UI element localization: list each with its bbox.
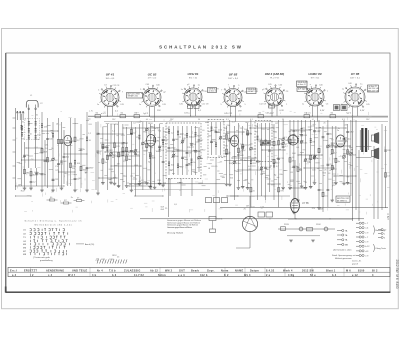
revision table column rule — [244, 267, 246, 276]
capacitor — [134, 153, 137, 154]
antenna input terminal — [22, 111, 24, 120]
resistor — [273, 159, 275, 163]
svg-text:2n: 2n — [316, 158, 318, 160]
wire — [110, 124, 112, 182]
wire stub — [319, 169, 322, 171]
wire — [233, 126, 235, 200]
capacitor — [168, 148, 171, 149]
svg-text:C12 C8: C12 C8 — [202, 104, 210, 106]
wire — [130, 122, 132, 191]
switch contact on bus — [120, 115, 126, 118]
tube V2 heater lead — [149, 106, 151, 116]
terminal symbol — [356, 236, 364, 238]
wire — [301, 120, 303, 186]
coil — [28, 128, 30, 133]
wire stub — [330, 154, 332, 156]
svg-text:185V: 185V — [148, 123, 153, 125]
svg-text:1M: 1M — [246, 205, 249, 207]
switch block — [206, 198, 212, 203]
svg-text:Gepr.: Gepr. — [207, 269, 215, 272]
resistor — [122, 151, 124, 155]
terminal symbol — [337, 243, 344, 245]
svg-text:Schalter Stellung u. Spulensat: Schalter Stellung u. Spulensatz im — [25, 220, 82, 223]
output transformer TR1 secondary winding — [365, 128, 367, 152]
trimmer capacitor — [142, 142, 145, 145]
tube V6 heater lead — [312, 106, 314, 116]
svg-text:5k: 5k — [201, 158, 203, 160]
wire — [298, 154, 322, 156]
coil — [177, 131, 179, 136]
svg-text:Sk: Sk — [121, 112, 123, 114]
tube V4 heater lead — [230, 107, 232, 117]
wire — [114, 124, 116, 183]
wire stub — [148, 132, 150, 134]
trimmer capacitor — [313, 156, 316, 159]
wire stub — [238, 163, 240, 165]
svg-text:ZULAESSIG: ZULAESSIG — [124, 269, 141, 272]
coil — [107, 147, 109, 152]
wire — [291, 129, 310, 131]
terminal symbol — [378, 233, 383, 235]
switch block — [222, 198, 228, 203]
coil — [250, 160, 252, 165]
svg-text:Bl 2: Bl 2 — [372, 269, 378, 272]
svg-text:} Tastensatz gedr.: } Tastensatz gedr. — [33, 256, 51, 259]
terminal symbol — [356, 222, 364, 224]
rail wire — [352, 117, 354, 221]
terminal symbol — [378, 237, 383, 239]
resistor — [102, 159, 104, 163]
svg-text:2012 SW M 6 8100: 2012 SW M 6 8100 — [395, 260, 399, 289]
wire — [356, 157, 372, 159]
ground — [130, 190, 134, 192]
revision table rule — [8, 271, 390, 273]
trimmer capacitor — [300, 141, 303, 144]
capacitor — [225, 153, 228, 154]
capacitor — [102, 147, 105, 148]
resistor — [242, 145, 244, 149]
wire — [322, 126, 324, 212]
antenna lead wire — [35, 105, 37, 169]
callout box — [297, 88, 307, 92]
svg-text:k: k — [98, 89, 99, 91]
ground — [145, 183, 149, 185]
terminal symbol — [356, 227, 364, 229]
svg-text:2n: 2n — [140, 121, 142, 123]
svg-text:f g2 2: f g2 2 — [346, 113, 352, 115]
trimmer capacitor — [181, 140, 184, 143]
capacitor — [63, 156, 66, 157]
svg-text:grundstellung: grundstellung — [40, 259, 53, 262]
trimmer capacitor — [134, 150, 137, 153]
heater bus wire — [88, 115, 388, 117]
tube V5 heater lead — [276, 106, 278, 116]
revision table column rule — [284, 267, 286, 276]
trimmer capacitor — [110, 153, 113, 156]
trimmer capacitor — [172, 154, 175, 157]
resistor — [76, 200, 81, 202]
junction — [352, 218, 353, 219]
wire — [249, 232, 251, 248]
capacitor — [237, 155, 240, 156]
svg-text:Multizet gemessen: Multizet gemessen — [335, 257, 352, 260]
wire — [16, 185, 65, 187]
switch table row — [23, 253, 66, 256]
wire — [17, 119, 353, 186]
svg-text:19V: 19V — [157, 110, 161, 112]
svg-text:C12 C8: C12 C8 — [112, 85, 120, 87]
wire stub — [333, 173, 336, 175]
ground — [241, 186, 245, 188]
capacitor — [41, 174, 44, 175]
coupling coil — [266, 141, 271, 146]
svg-text:8/1 × 10: 8/1 × 10 — [189, 76, 198, 79]
switch contact on bus — [258, 115, 264, 118]
wire stub — [104, 175, 107, 177]
capacitor — [181, 157, 184, 158]
antenna coil shield box — [25, 119, 40, 140]
wire stub — [158, 129, 160, 131]
wire — [212, 221, 214, 230]
capacitor — [335, 147, 338, 148]
capacitor — [331, 143, 334, 144]
wire — [334, 175, 356, 177]
svg-text:b 4: b 4 — [332, 274, 337, 277]
capacitor — [246, 133, 249, 134]
trimmer capacitor — [343, 156, 346, 159]
ground — [51, 190, 55, 192]
capacitor — [80, 149, 83, 150]
tube V1 heater lead — [107, 107, 109, 117]
wire stub — [251, 179, 253, 181]
svg-text:11.7.52: 11.7.52 — [134, 274, 144, 277]
rail wire — [358, 150, 360, 221]
ground — [73, 190, 77, 192]
wire stub — [143, 167, 147, 169]
wire — [107, 155, 140, 157]
tube V5 heater lead — [271, 106, 273, 116]
resistor — [30, 172, 32, 176]
wire — [262, 149, 285, 151]
resistor — [278, 188, 280, 192]
tube V1 heater lead — [112, 107, 114, 117]
svg-text:10k: 10k — [296, 131, 299, 133]
capacitor — [318, 189, 321, 190]
switch table row — [23, 243, 69, 246]
ground — [292, 212, 296, 214]
wire stub — [323, 175, 325, 177]
wire stub — [311, 144, 314, 146]
tally marks — [97, 260, 127, 264]
trimmer capacitor — [260, 167, 263, 170]
wire — [377, 160, 379, 219]
wire — [230, 195, 290, 197]
capacitor — [293, 134, 296, 135]
svg-text:3n: 3n — [128, 159, 130, 161]
trimmer capacitor — [250, 147, 253, 150]
capacitor — [86, 168, 89, 169]
coil — [41, 123, 43, 127]
wire stub — [271, 180, 274, 182]
resistor — [322, 192, 324, 196]
junction — [269, 218, 270, 219]
switch table row — [23, 236, 65, 239]
wire — [86, 112, 88, 190]
wire stub — [351, 149, 353, 151]
svg-text:1M: 1M — [26, 155, 29, 157]
wire — [159, 124, 161, 183]
svg-text:19V: 19V — [238, 110, 242, 112]
svg-text:2n: 2n — [253, 191, 255, 193]
wire stub — [326, 139, 328, 141]
svg-text:DC 4: DC 4 — [218, 219, 224, 221]
wire — [74, 118, 76, 190]
terminal symbol — [356, 245, 364, 247]
capacitor — [122, 143, 125, 144]
switch table row — [23, 229, 64, 232]
svg-text:UY 85: UY 85 — [351, 72, 360, 76]
capacitor — [327, 189, 330, 190]
ground — [101, 183, 105, 185]
capacitor — [346, 132, 349, 133]
capacitor — [97, 151, 100, 152]
svg-text:Ab 12: Ab 12 — [150, 269, 158, 272]
fuse — [281, 227, 286, 231]
wire stub — [276, 158, 279, 160]
wire — [22, 159, 48, 161]
coil — [86, 137, 88, 142]
ground — [317, 208, 321, 210]
trimmer capacitor — [350, 153, 353, 156]
wire — [232, 157, 256, 159]
capacitor — [194, 151, 197, 152]
wire — [64, 153, 87, 155]
svg-text:x: x — [384, 233, 385, 235]
svg-text:b 3: b 3 — [112, 274, 117, 277]
tube V3 heater lead — [190, 106, 192, 116]
resistor — [154, 137, 156, 141]
tube V4 UF 85 socket — [222, 85, 244, 107]
wire — [305, 120, 307, 187]
wire — [278, 120, 280, 208]
capacitor — [162, 140, 165, 141]
revision table column rule — [343, 267, 345, 276]
svg-text:C12 C8: C12 C8 — [259, 104, 267, 106]
capacitor — [186, 165, 189, 166]
ground — [113, 183, 117, 185]
tube V6 UABC 80 socket — [304, 85, 326, 107]
svg-text:1M: 1M — [260, 174, 263, 176]
wire — [198, 127, 200, 172]
table annotation — [76, 243, 84, 245]
tube V3 heater lead — [195, 106, 197, 116]
svg-text:W 2 f: W 2 f — [68, 274, 75, 277]
svg-text:5k: 5k — [83, 149, 85, 151]
schematic border bottom edge — [6, 291, 391, 293]
wire — [97, 122, 99, 194]
tube V5 UM 4 (UM 80) socket — [264, 85, 286, 107]
svg-text:Schm: Schm — [158, 274, 166, 277]
wire — [316, 127, 346, 129]
svg-text:alle Kontakte v. oben: alle Kontakte v. oben — [333, 248, 352, 251]
wire — [149, 124, 151, 187]
capacitor — [282, 146, 285, 147]
wire stub — [160, 155, 162, 157]
capacitor — [172, 139, 175, 140]
wire stub — [128, 159, 131, 161]
wire — [16, 195, 32, 197]
svg-text:ab Serie 51: ab Serie 51 — [369, 86, 377, 88]
svg-text:Datum: Datum — [250, 269, 260, 272]
wire — [242, 126, 244, 186]
wire — [70, 118, 72, 186]
svg-text:UF 85: UF 85 — [229, 73, 238, 77]
wire — [331, 126, 333, 200]
capacitor — [74, 179, 77, 180]
wire — [191, 179, 193, 197]
revision table column rule — [159, 267, 161, 276]
wire stub — [124, 159, 127, 161]
wire — [297, 120, 299, 200]
wire — [257, 123, 259, 200]
wire stub — [111, 177, 114, 179]
wire — [154, 124, 156, 187]
svg-text:3n: 3n — [270, 166, 272, 168]
supply bus wire — [140, 218, 364, 220]
svg-text:AENDERUNG: AENDERUNG — [46, 269, 64, 272]
coil — [35, 128, 37, 133]
wire — [100, 142, 128, 144]
terminal symbol — [337, 239, 344, 241]
wire stub — [236, 130, 238, 132]
svg-text:AB SERIE 51: AB SERIE 51 — [337, 199, 347, 202]
tube V3 UCH 81 socket — [182, 85, 204, 107]
tube V2 UC 92 socket — [141, 85, 163, 107]
wire — [226, 126, 228, 184]
svg-text:Nr 4: Nr 4 — [97, 269, 103, 272]
wire — [356, 146, 372, 148]
svg-text:220V: 220V — [284, 224, 289, 226]
wire stub — [351, 149, 353, 151]
svg-text:Wellenbereich (Sk 1-12): Wellenbereich (Sk 1-12) — [35, 223, 72, 226]
svg-text:3n: 3n — [248, 183, 250, 185]
trimmer capacitor — [327, 145, 330, 148]
wire — [26, 147, 42, 149]
svg-text:UM 4 (UM 80): UM 4 (UM 80) — [265, 72, 284, 76]
coupling coil — [261, 141, 266, 146]
svg-text:UC 92: UC 92 — [148, 73, 157, 77]
svg-text:UF 41: UF 41 — [106, 73, 115, 77]
filter choke — [334, 105, 340, 111]
capacitor — [241, 147, 244, 148]
coil — [310, 138, 312, 143]
wire — [80, 124, 82, 188]
svg-text:T.8 b: T.8 b — [109, 269, 116, 272]
junction — [358, 218, 359, 219]
left rail wire — [15, 108, 17, 190]
wire stub — [100, 138, 103, 140]
wire — [122, 124, 124, 190]
wire stub — [323, 139, 326, 141]
trimmer capacitor — [52, 158, 55, 161]
voltage dropper box — [209, 217, 216, 221]
resistor — [385, 173, 387, 177]
wire — [310, 120, 312, 186]
antenna lead wire — [28, 105, 30, 169]
svg-text:ab Serie 51: ab Serie 51 — [298, 84, 306, 86]
IF transformer T1 shield box — [166, 123, 201, 179]
wire stub — [298, 183, 301, 185]
ground — [161, 185, 165, 187]
capacitor — [130, 150, 133, 151]
svg-text:WN 2: WN 2 — [165, 269, 173, 272]
ground — [300, 186, 304, 188]
wire stub — [123, 175, 125, 177]
svg-text:5k: 5k — [121, 152, 123, 154]
callout box — [208, 88, 217, 93]
svg-text:geprüft: geprüft — [352, 262, 358, 265]
ground — [109, 182, 113, 184]
tube V7 rectifier envelope — [291, 199, 300, 213]
resistor — [278, 141, 280, 145]
svg-text:ab Serie 51: ab Serie 51 — [209, 91, 217, 93]
tube V7 heater lead — [352, 107, 354, 116]
svg-text:2 a: 2 a — [266, 274, 271, 277]
coil — [273, 163, 275, 168]
wire stub — [111, 171, 114, 173]
capacitor — [264, 167, 267, 168]
coil — [35, 121, 37, 126]
junction — [295, 218, 296, 219]
revision table column rule — [224, 267, 226, 276]
ground — [149, 187, 153, 189]
wire — [123, 127, 158, 129]
ground — [313, 183, 317, 185]
terminal symbol — [337, 229, 344, 231]
ground — [29, 188, 33, 190]
svg-text:10/7 × 3,1: 10/7 × 3,1 — [350, 76, 361, 79]
svg-text:f g2 2: f g2 2 — [143, 113, 149, 115]
wire stub — [344, 161, 347, 163]
wire stub — [299, 154, 301, 156]
callout box — [127, 93, 143, 99]
svg-text:Messung: Multizet: Messung: Multizet — [167, 231, 184, 234]
ground — [117, 186, 121, 188]
wire stub — [234, 170, 236, 172]
wire — [350, 120, 352, 196]
wire — [102, 127, 104, 183]
svg-text:412 b: 412 b — [200, 274, 208, 277]
capacitor — [30, 181, 33, 182]
svg-text:C45 C12: C45 C12 — [266, 113, 275, 115]
callout box — [368, 85, 379, 92]
svg-text:2n: 2n — [338, 128, 340, 130]
resistor — [114, 143, 116, 147]
svg-text:2n: 2n — [71, 197, 73, 199]
capacitor — [322, 137, 325, 138]
wire stub — [148, 152, 150, 154]
ground — [311, 240, 315, 242]
svg-text:185V: 185V — [234, 135, 239, 137]
svg-text:9/4 × 4,5: 9/4 × 4,5 — [106, 77, 115, 80]
revision table column rule — [30, 267, 32, 276]
wire — [41, 112, 43, 190]
capacitor — [289, 143, 292, 144]
svg-text:c. K: c. K — [89, 111, 93, 113]
svg-text:C3 1a: C3 1a — [184, 113, 190, 115]
wire stub — [144, 181, 147, 183]
wire — [215, 158, 217, 219]
